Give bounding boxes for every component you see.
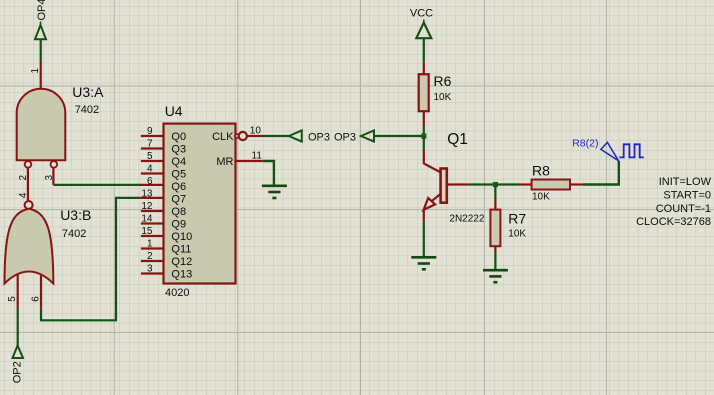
terminal OP4 [35,0,48,39]
wire junction to R7 [494,185,496,200]
wire MR to ground [263,161,274,185]
resistor R7 [490,199,526,253]
generator R8(2) [572,137,644,161]
svg-text:CLOCK=32768: CLOCK=32768 [636,216,711,228]
svg-text:Q6: Q6 [171,181,186,193]
svg-text:5: 5 [147,151,153,162]
annotation text block [636,176,712,228]
svg-text:Q11: Q11 [171,244,191,256]
base bar [441,169,447,203]
svg-text:1: 1 [30,68,41,74]
svg-text:12: 12 [141,201,153,212]
pin 3 of U3:A [52,168,54,185]
IC U4 4020 [164,124,236,284]
wire OP4 to U3:A pin 1 [40,39,42,62]
svg-text:INIT=LOW: INIT=LOW [659,176,712,188]
svg-text:COUNT=-1: COUNT=-1 [656,203,711,215]
svg-text:VCC: VCC [410,8,433,20]
svg-text:Q9: Q9 [171,219,186,231]
svg-text:7: 7 [147,139,153,150]
svg-text:Q5: Q5 [171,169,186,181]
svg-text:Q8: Q8 [171,206,186,218]
svg-text:Q0: Q0 [171,131,186,143]
U4 pin numbers left [141,126,153,275]
svg-text:10K: 10K [532,192,550,203]
svg-text:R8: R8 [532,163,550,179]
svg-text:7402: 7402 [62,228,86,240]
wire junction to R8 [495,183,519,185]
terminal OP2 [11,346,23,384]
svg-text:10: 10 [250,126,262,137]
svg-text:Q3: Q3 [171,144,186,156]
svg-text:9: 9 [147,126,153,137]
base pin [447,183,469,185]
wire base to junction [469,183,496,185]
svg-text:2N2222: 2N2222 [449,214,484,225]
svg-text:U3:B: U3:B [60,207,91,223]
svg-text:R6: R6 [434,73,452,89]
collector pin [423,150,425,164]
wire VCC to R6 [423,38,425,62]
svg-text:Q7: Q7 [171,194,186,206]
svg-text:11: 11 [252,151,263,162]
wire R6 to node [423,126,425,136]
svg-text:14: 14 [141,214,153,225]
probe triangle [601,142,619,160]
svg-text:3: 3 [44,175,55,181]
svg-text:6: 6 [147,176,153,187]
resistor R8 [520,163,584,203]
NOR gate U3:B output bubble pin 4 [25,201,33,209]
pin 1 of U3:A [40,62,42,89]
svg-text:4: 4 [147,164,153,175]
svg-text:15: 15 [141,226,153,237]
svg-text:R8(2): R8(2) [572,137,598,149]
svg-text:Q10: Q10 [171,231,192,243]
input bubble pin 3 [51,161,58,168]
wire emitter to ground [423,222,425,257]
wire U3:A pin3 to U4 Q6 [53,184,140,186]
NOR gate U3:A (AND shape with input bubbles) [17,89,66,161]
svg-text:CLK: CLK [212,131,234,143]
svg-text:13: 13 [141,189,153,200]
ground (emitter) [411,257,436,269]
transistor Q1 2N2222 [424,131,485,225]
pin 2 wire to U3:B output [27,168,29,201]
svg-text:Q12: Q12 [171,256,192,268]
svg-text:2: 2 [18,175,29,181]
wire node to Q1 collector [423,136,425,150]
svg-text:2: 2 [147,251,153,262]
U4 pin names [171,131,192,281]
wire OP3 to node [374,135,424,137]
ground (R7) [483,270,508,282]
svg-text:START=0: START=0 [663,189,711,201]
svg-text:4: 4 [18,192,29,198]
terminal OP3 (left) [289,130,302,141]
svg-text:OP3: OP3 [334,132,356,144]
svg-text:5: 5 [7,296,18,302]
svg-text:1: 1 [147,239,153,250]
emitter with arrow [432,194,441,202]
wire U3:B pin6 to U4 Q7 [41,198,139,320]
svg-text:4020: 4020 [165,287,189,299]
svg-text:Q13: Q13 [171,269,192,281]
ground (MR) [262,186,287,198]
wire U3:B pin5 to OP2 [17,308,19,345]
svg-text:10K: 10K [434,92,452,103]
pin 11 MR [236,160,263,162]
svg-text:OP3: OP3 [308,132,330,144]
pin 6 of U3:B [40,275,42,308]
pin 5 of U3:B [17,275,19,309]
svg-text:U4: U4 [165,103,183,119]
U4 left pins Q0..Q13 [139,136,163,274]
svg-text:Q4: Q4 [171,156,186,168]
svg-text:MR: MR [216,156,233,168]
wire CLK to OP3 [263,135,289,137]
svg-text:10K: 10K [508,229,526,240]
svg-text:6: 6 [31,296,42,302]
clock waveform glyph [619,144,643,157]
svg-text:U3:A: U3:A [72,84,104,100]
svg-text:R7: R7 [508,211,526,227]
CLK bubble pin 10 [235,134,239,138]
node (base junction) [493,182,498,187]
input bubble pin 2 [25,161,32,168]
wire R8 to generator [583,161,619,185]
svg-text:OP2: OP2 [11,361,23,383]
wire R7 to ground [494,253,496,270]
NOR gate U3:B (OR shape) [5,209,54,284]
svg-text:3: 3 [147,264,153,275]
svg-text:Q1: Q1 [447,131,468,148]
svg-text:7402: 7402 [75,104,99,116]
resistor R6 [419,62,452,126]
svg-text:OP4: OP4 [36,0,48,21]
node (collector junction) [421,133,426,138]
